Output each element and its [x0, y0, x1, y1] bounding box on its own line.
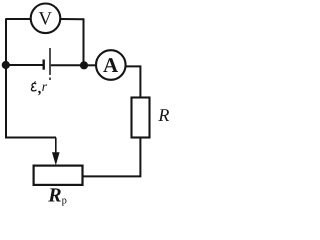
wire: battery right lead: [51, 64, 84, 66]
battery cell: short thick plate: [43, 60, 45, 70]
wire: battery left lead: [6, 64, 43, 66]
wire: top-left horizontal segment: [6, 18, 31, 20]
label: Rp: [47, 185, 67, 207]
wire: resistor R bottom lead down and left to rheostat: [82, 138, 140, 177]
node: battery right junction dot: [80, 61, 88, 69]
rheostat Rp (box): [34, 166, 83, 185]
svg-text:R: R: [47, 185, 61, 207]
wire: top-right horizontal segment: [61, 18, 84, 20]
svg-text:A: A: [103, 53, 119, 77]
wire: wiper stem vertical: [55, 138, 57, 155]
node: battery left junction dot: [2, 61, 10, 69]
ammeter A: [96, 50, 126, 80]
voltmeter V: [31, 3, 61, 33]
svg-text:V: V: [38, 9, 52, 30]
wire: right vertical (top corner down to battery node): [83, 18, 85, 63]
wire: junction dot to ammeter: [84, 64, 97, 66]
battery cell: long thin plate: [49, 48, 51, 80]
wire: left vertical (top corner down to lower-left corner): [5, 18, 7, 138]
wire: lower-left horizontal to wiper: [5, 137, 56, 139]
resistor R (box): [132, 98, 150, 138]
svg-text:r: r: [42, 80, 48, 95]
svg-text:p: p: [62, 196, 67, 207]
svg-text:R: R: [157, 105, 169, 125]
wire: ammeter to resistor R (right angle): [126, 66, 140, 98]
label: EMF "ε, r" of the cell: [31, 80, 47, 97]
rheostat wiper arrowhead: [52, 152, 60, 165]
